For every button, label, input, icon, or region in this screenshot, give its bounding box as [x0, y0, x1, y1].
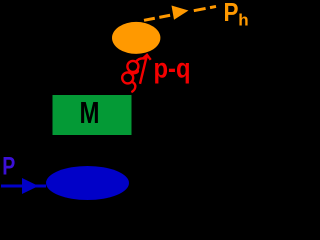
- upper hadron blob (orange ellipse): [112, 22, 160, 54]
- dashed momentum line P_h: [144, 15, 173, 20]
- svg-text:p-q: p-q: [154, 53, 191, 84]
- momentum arrow p-q barbs: [142, 55, 150, 60]
- momentum arrow p-q shaft: [140, 55, 147, 84]
- gluon curl entry stroke: [136, 58, 146, 62]
- svg-text:h: h: [238, 11, 248, 30]
- gluon curl connector stroke: [132, 70, 138, 74]
- svg-text:P: P: [224, 0, 239, 27]
- lower hadron blob (blue ellipse): [46, 166, 129, 200]
- svg-text:M: M: [80, 95, 100, 130]
- hard interaction box (green rectangle): [53, 95, 132, 135]
- svg-text:P: P: [2, 152, 15, 180]
- gluon curl loop 1: [127, 61, 138, 72]
- gluon curl tail stroke: [132, 82, 136, 92]
- gluon curl loop 2: [122, 72, 133, 83]
- arrowhead on P line: [22, 178, 39, 194]
- incoming momentum line P: [1, 185, 46, 188]
- arrowhead on dashed line: [172, 6, 189, 20]
